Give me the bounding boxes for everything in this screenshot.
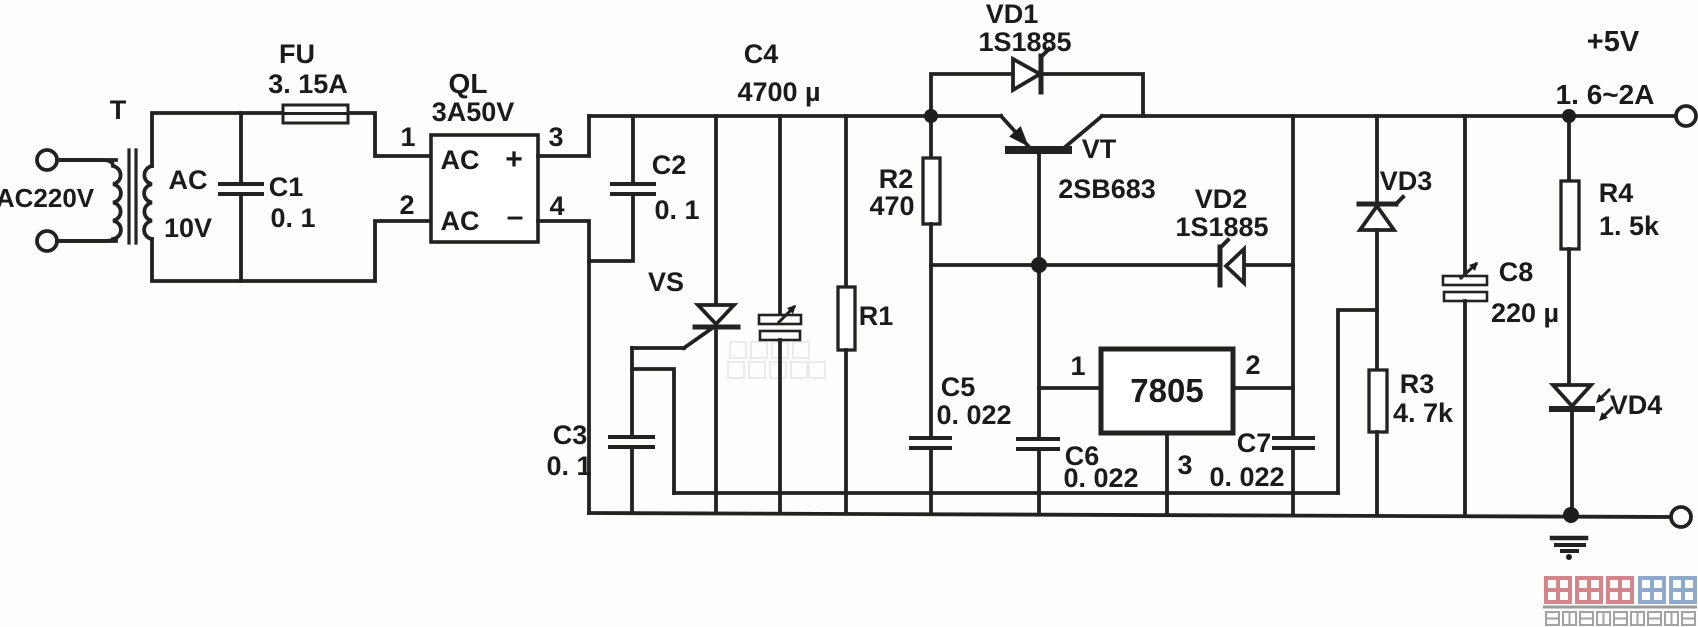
svg-text:R3: R3: [1400, 369, 1435, 399]
svg-text:–: –: [507, 200, 524, 233]
terminal output +5V: [1676, 106, 1696, 126]
diode VD2: [1218, 247, 1223, 285]
logo underline: [1543, 606, 1697, 609]
svg-text:VD4: VD4: [1610, 390, 1663, 420]
svg-text:VD3: VD3: [1380, 166, 1433, 196]
wire bottom ground rail: [589, 513, 1671, 517]
svg-text:1: 1: [1070, 351, 1085, 381]
logo peixun blue characters: [1640, 578, 1695, 602]
svg-text:4: 4: [549, 191, 564, 221]
svg-text:7805: 7805: [1130, 372, 1203, 409]
wire gate to inner rail: [632, 369, 674, 493]
svg-text:2SB683: 2SB683: [1058, 174, 1156, 204]
svg-text:C1: C1: [269, 172, 304, 202]
svg-text:1: 1: [400, 122, 415, 152]
svg-text:C2: C2: [652, 150, 687, 180]
svg-text:T: T: [110, 95, 127, 125]
capacitor C3: [630, 348, 634, 437]
svg-text:0. 022: 0. 022: [1209, 462, 1284, 492]
svg-text:3: 3: [548, 122, 563, 152]
node dot input rail: [924, 109, 938, 123]
wire QL pin3 to top rail: [538, 116, 589, 156]
svg-text:3. 15A: 3. 15A: [268, 69, 348, 99]
wire inner gate rail: [674, 491, 1338, 495]
wire secondary top: [152, 113, 284, 166]
svg-text:+: +: [505, 143, 523, 176]
wire: [57, 239, 116, 243]
svg-text:470: 470: [869, 191, 914, 221]
svg-text:AC220V: AC220V: [0, 183, 95, 213]
svg-text:R2: R2: [879, 164, 914, 194]
svg-text:VS: VS: [648, 267, 684, 297]
fuse FU: [283, 105, 348, 123]
transformer T primary winding: [57, 160, 121, 241]
diode VD1: [931, 74, 1013, 116]
svg-text:QL: QL: [449, 68, 488, 99]
svg-text:R4: R4: [1599, 178, 1634, 208]
thyristor VS: [714, 116, 718, 305]
svg-text:AC: AC: [441, 206, 480, 236]
transformer T core: [127, 150, 130, 243]
resistor R3: [1369, 370, 1387, 432]
resistor R4: [1567, 116, 1571, 181]
wire VS gate: [684, 329, 711, 348]
node dot base row: [1031, 257, 1047, 273]
wire output column: [1291, 116, 1295, 438]
svg-text:3A50V: 3A50V: [432, 97, 515, 127]
svg-text:220 µ: 220 µ: [1491, 298, 1559, 328]
svg-text:4700 µ: 4700 µ: [737, 77, 820, 107]
IC U1 7805: [1101, 349, 1233, 433]
svg-text:VD2: VD2: [1195, 184, 1248, 214]
wire 7805 pin2: [1233, 386, 1293, 390]
capacitor C2: [631, 116, 635, 184]
logo tagline gray characters: [1546, 612, 1695, 625]
wire top rail right segment: [1102, 114, 1676, 118]
svg-text:2: 2: [1245, 350, 1260, 380]
svg-text:VT: VT: [1082, 134, 1117, 164]
node dot output rail R4: [1562, 109, 1576, 123]
bridge rectifier QL: [431, 135, 538, 242]
wire 7805 pin3: [1165, 433, 1169, 514]
svg-text:C3: C3: [553, 420, 588, 450]
wire: [57, 158, 116, 162]
svg-text:C8: C8: [1499, 257, 1534, 287]
wire VT base: [1037, 154, 1041, 388]
wire VD3-R3 junction to inner rail: [1338, 310, 1377, 493]
svg-text:AC: AC: [441, 145, 480, 175]
resistor R2: [929, 116, 933, 158]
svg-text:1. 6~2A: 1. 6~2A: [1556, 79, 1655, 110]
terminal AC input top: [37, 150, 57, 170]
svg-text:0. 1: 0. 1: [546, 451, 591, 481]
LED VD4: [1553, 385, 1591, 406]
svg-text:0. 1: 0. 1: [654, 195, 699, 225]
svg-text:1S1885: 1S1885: [978, 27, 1071, 57]
svg-text:0. 022: 0. 022: [1063, 463, 1138, 493]
svg-text:1. 5k: 1. 5k: [1599, 211, 1660, 241]
svg-text:3: 3: [1177, 450, 1192, 480]
wire QL pin4 down: [538, 221, 589, 513]
svg-text:0. 1: 0. 1: [270, 203, 315, 233]
node dot ground rail: [1563, 507, 1579, 523]
svg-text:0. 022: 0. 022: [936, 400, 1011, 430]
wire secondary bottom: [152, 221, 431, 281]
capacitor C4 electrolytic: [778, 116, 782, 316]
wire base node row: [931, 263, 1219, 267]
svg-text:10V: 10V: [164, 213, 212, 243]
capacitor C6: [1037, 388, 1041, 439]
svg-text:+5V: +5V: [1587, 26, 1640, 58]
svg-text:AC: AC: [169, 165, 208, 195]
terminal AC input bottom: [37, 231, 57, 251]
svg-text:C4: C4: [744, 39, 779, 69]
svg-text:C7: C7: [1237, 428, 1272, 458]
svg-text:R1: R1: [859, 301, 894, 331]
svg-text:VD1: VD1: [986, 0, 1039, 29]
logo yiditu pink characters: [1543, 578, 1697, 625]
transistor VT: [1001, 116, 1030, 148]
capacitor C8 electrolytic: [1463, 116, 1467, 277]
wire fuse to QL pin1: [347, 113, 431, 156]
capacitor C5: [929, 265, 933, 438]
transformer T secondary winding: [144, 166, 152, 239]
svg-text:4. 7k: 4. 7k: [1393, 398, 1454, 428]
wire top rail left segment: [589, 114, 1001, 118]
capacitor C7: [1274, 436, 1313, 440]
svg-text:1S1885: 1S1885: [1175, 212, 1268, 242]
svg-text:C5: C5: [941, 372, 976, 402]
svg-text:FU: FU: [279, 39, 315, 69]
capacitor C1: [239, 113, 243, 184]
wire 7805 pin1: [1039, 386, 1101, 390]
resistor R1: [844, 116, 848, 287]
svg-text:2: 2: [399, 190, 414, 220]
ground: [1552, 536, 1586, 541]
zener diode VD3: [1375, 116, 1379, 204]
faint watermark: [728, 342, 825, 378]
terminal output ground: [1671, 507, 1691, 527]
